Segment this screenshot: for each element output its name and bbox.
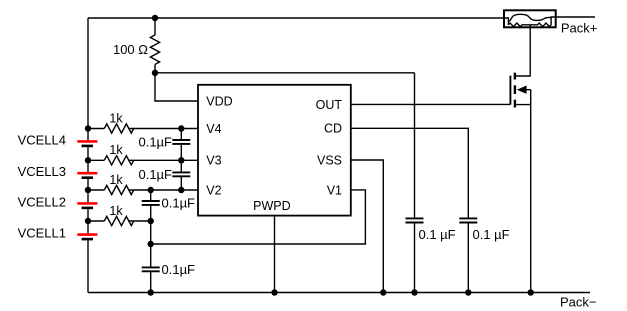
node VCELL2 top [85, 187, 91, 193]
wire fuse center tap to MOSFET drain [515, 25, 531, 76]
wire top rail [88, 17, 504, 19]
battery cell VCELL1 [77, 235, 97, 240]
channel bar middle [514, 85, 516, 94]
battery cell VCELL2 [77, 203, 97, 208]
wire CD pin to right cap column [351, 128, 469, 218]
gate bar [509, 76, 511, 105]
battery cell VCELL4 [77, 141, 97, 146]
wire between VCELL2 and VCELL1 [87, 209, 89, 233]
svg-text:1k: 1k [109, 204, 123, 218]
node VCELL1 top [85, 218, 91, 224]
wire V1 pin loop to VCELL1 cap node [151, 190, 366, 244]
node bottom MOSFET source [528, 289, 534, 295]
capacitor C 0.1uF on VDD node column [406, 73, 424, 293]
svg-text:0.1µF: 0.1µF [162, 262, 196, 277]
svg-text:VSS: VSS [317, 153, 342, 167]
wire 100ohm node to right cap column [155, 72, 415, 74]
capacitor C 0.1uF V1 node to bottom rail [142, 267, 160, 292]
svg-text:0.1µF: 0.1µF [138, 167, 172, 182]
node VCELL1 row cap [148, 218, 154, 224]
svg-text:VCELL4: VCELL4 [18, 132, 66, 147]
node bottom cap CD [465, 289, 471, 295]
svg-text:VCELL1: VCELL1 [18, 226, 66, 241]
svg-text:Pack−: Pack− [560, 294, 597, 309]
svg-text:0.1µF: 0.1µF [138, 134, 172, 149]
svg-text:0.1µF: 0.1µF [162, 196, 196, 211]
node bottom VSS [380, 289, 386, 295]
wire VCELL1 to bottom rail [87, 240, 89, 292]
capacitor C 0.1uF on CD column [459, 218, 477, 292]
channel bar top [514, 73, 516, 80]
node bottom PWPD [271, 289, 277, 295]
svg-text:1k: 1k [109, 143, 123, 157]
svg-text:Pack+: Pack+ [561, 21, 598, 36]
resistor 1k row V2 [88, 185, 198, 194]
svg-text:CD: CD [324, 122, 342, 136]
transistor Q1 MOSFET [510, 73, 530, 293]
resistor 1k row VCELL1 [88, 216, 151, 225]
svg-text:V1: V1 [327, 183, 342, 197]
node cap V4 [178, 125, 184, 131]
svg-text:VCELL2: VCELL2 [18, 194, 66, 209]
wire 100ohm to VDD pin [155, 73, 198, 101]
wire left rail segment (top to VCELL4) [87, 18, 89, 140]
wire PWPD to bottom rail [274, 216, 276, 293]
svg-text:0.1 µF: 0.1 µF [473, 227, 510, 242]
wire OUT pin to MOSFET gate [351, 103, 511, 105]
wire VSS pin to bottom rail [351, 160, 384, 293]
svg-text:1k: 1k [109, 111, 123, 125]
PTC fuse F1 [504, 10, 556, 27]
svg-text:OUT: OUT [316, 98, 343, 112]
channel bar bottom [514, 100, 516, 108]
svg-text:VDD: VDD [206, 94, 232, 108]
node VCELL3 top [85, 157, 91, 163]
wire fuse right lead to Pack+ [556, 16, 595, 18]
wire between VCELL3 and VCELL2 [87, 179, 89, 202]
svg-text:0.1 µF: 0.1 µF [419, 227, 456, 242]
svg-text:VCELL3: VCELL3 [18, 164, 66, 179]
svg-text:100 Ω: 100 Ω [113, 42, 148, 57]
capacitor C 0.1uF between V2 and VCELL1 node [142, 190, 160, 221]
resistor 1k row V4 [88, 124, 198, 133]
node bottom cap VDD [411, 289, 417, 295]
wire bottom rail [88, 292, 590, 294]
node cap V3 [178, 157, 184, 163]
source tap [515, 104, 531, 106]
body tap with arrow [522, 89, 531, 91]
source vertical to bottom rail [530, 90, 532, 293]
node cap V2 left [148, 187, 154, 193]
node cap V2 right [178, 187, 184, 193]
IC U1 box [198, 85, 351, 216]
battery cell VCELL3 [77, 173, 97, 178]
capacitor C 0.1uF between V4 and V3 [172, 129, 190, 161]
svg-text:PWPD: PWPD [253, 199, 291, 213]
node 100ohm top [152, 15, 158, 21]
node 100ohm bottom / VDD [152, 70, 158, 76]
wire between VCELL4 and VCELL3 [87, 147, 89, 172]
svg-text:V3: V3 [206, 154, 221, 168]
wire VCELL1 node down to V1 tee and bottom cap [150, 221, 152, 267]
svg-text:V2: V2 [206, 183, 221, 197]
node VCELL4 top [85, 125, 91, 131]
resistor R 100 Ohm [150, 18, 159, 73]
capacitor C 0.1uF between V3 and V2 [172, 160, 190, 190]
svg-text:V4: V4 [206, 122, 221, 136]
resistor 1k row V3 [88, 156, 198, 165]
node bottom cap left [148, 289, 154, 295]
svg-text:1k: 1k [109, 173, 123, 187]
node V1 tee [148, 241, 154, 247]
